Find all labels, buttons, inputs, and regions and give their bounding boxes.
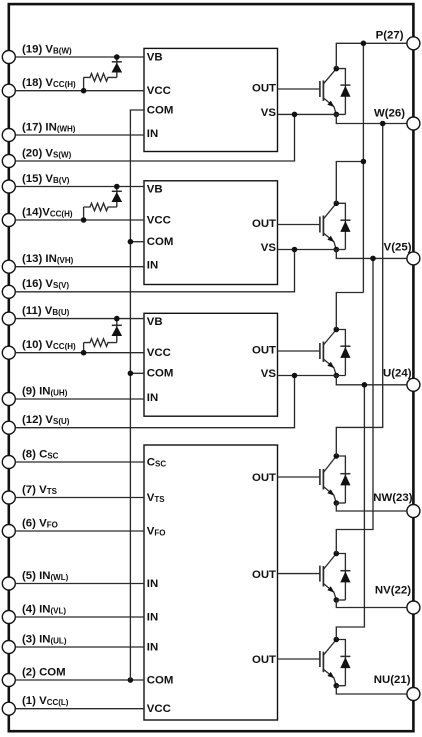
junction: D2 anode on VB wire	[114, 184, 120, 190]
junction: D3 anode on VB wire	[114, 316, 120, 322]
label pin (13)	[22, 253, 74, 265]
label pin (3)	[22, 633, 67, 645]
wire pin 14 to driver input	[15, 219, 144, 221]
wire V(25) rail	[336, 250, 407, 554]
IGBT Q4 (NW low side)	[320, 456, 336, 503]
pin V(25)	[407, 252, 420, 265]
junction: P rail top	[361, 41, 367, 47]
label pin (18)	[22, 77, 76, 89]
junction: D1 anode on VB wire	[114, 54, 120, 60]
wire pin 8 to driver input	[15, 461, 144, 463]
pin (7) VTS	[2, 491, 15, 504]
wire pin 3 to driver input	[15, 646, 144, 648]
svg-text:(15) VB(V): (15) VB(V)	[22, 173, 70, 185]
svg-text:OUT: OUT	[252, 345, 276, 357]
wire OUT to Q6 gate	[278, 658, 320, 660]
wire U2 VS to Q2 emitter	[278, 249, 346, 251]
wire pin 19 to driver input	[15, 56, 144, 58]
pin U(24)	[407, 378, 420, 391]
svg-text:VCC: VCC	[147, 703, 171, 715]
wire pin 6 to driver input	[15, 530, 144, 532]
svg-text:(1) VCC(L): (1) VCC(L)	[22, 695, 69, 707]
pin (5) IN(WL)	[2, 577, 15, 590]
label pin NU(21)	[374, 674, 411, 686]
freewheel diode D6F (NU low side)	[336, 640, 350, 686]
pin (11) VB(U)	[2, 312, 15, 325]
svg-text:VCC: VCC	[147, 85, 171, 97]
junction: VS return at x=294.5	[292, 112, 298, 118]
label pin P(27)	[376, 30, 404, 42]
svg-text:VS: VS	[261, 368, 277, 380]
svg-text:VB: VB	[147, 184, 163, 196]
svg-text:(2) COM: (2) COM	[22, 666, 66, 678]
wire NU(21) from Q6 emitter	[336, 686, 407, 694]
svg-text:IN: IN	[147, 578, 158, 590]
pin (18) VCC(H)	[2, 84, 15, 97]
svg-text:(16) VS(V): (16) VS(V)	[22, 278, 69, 290]
label pin (12)	[22, 414, 70, 426]
IGBT Q5 (NV low side)	[320, 554, 336, 601]
svg-text:(12) VS(U): (12) VS(U)	[22, 414, 70, 426]
pin W(26)	[407, 117, 420, 130]
svg-text:VCC: VCC	[147, 347, 171, 359]
wire pin 18 to driver input	[15, 90, 144, 92]
bootstrap diode D2	[112, 187, 123, 208]
label pin NW(23)	[373, 492, 412, 504]
node Q5 collector	[334, 551, 340, 557]
svg-text:OUT: OUT	[252, 569, 276, 581]
pin (9) IN(UH)	[2, 393, 15, 406]
wire Q6 emitter to diode anode	[336, 685, 345, 687]
svg-text:V(25): V(25)	[384, 242, 412, 254]
svg-text:(17) IN(WH): (17) IN(WH)	[22, 121, 76, 133]
node Q3 emitter	[334, 373, 340, 379]
wire pin 4 to driver input	[15, 616, 144, 618]
bootstrap resistor R2	[84, 203, 117, 220]
freewheel diode D2F (V phase high side)	[336, 203, 350, 249]
label pin (11)	[22, 305, 70, 317]
junction: P rail to Q2 collector	[361, 159, 367, 165]
gate driver U1 (W high side)	[144, 48, 278, 151]
svg-text:VS: VS	[261, 242, 277, 254]
bootstrap resistor R1	[84, 74, 117, 91]
svg-text:VS: VS	[261, 107, 277, 119]
wire OUT to Q5 gate	[278, 573, 320, 575]
svg-text:IN: IN	[147, 611, 158, 623]
pin NW(23)	[407, 505, 420, 518]
label pin (1)	[22, 695, 69, 707]
svg-text:COM: COM	[147, 236, 174, 248]
IGBT Q3 (U phase high side)	[320, 330, 336, 376]
wire U(24) rail	[336, 376, 407, 640]
pin (12) VS(U)	[2, 421, 15, 434]
pin (14) VCC(H)	[2, 214, 15, 227]
pin P(27)	[407, 37, 420, 50]
wire Q5 emitter to diode anode	[336, 599, 345, 601]
label pin (16)	[22, 278, 69, 290]
label pin (10)	[22, 339, 76, 351]
junction: V rail	[370, 256, 376, 262]
wire U3 VS to Q3 emitter	[278, 375, 346, 377]
U1 pin labels VB VCC COM IN OUT VS	[147, 51, 277, 140]
junction: R1 to VCC wire	[81, 88, 87, 94]
svg-text:W(26): W(26)	[374, 108, 405, 120]
wire pin 16 VS return	[15, 250, 294, 292]
svg-text:(20) VS(W): (20) VS(W)	[22, 147, 72, 159]
wire pin 17 to driver input	[15, 134, 144, 136]
wire pin 1 to driver input	[15, 708, 144, 710]
wire pin 10 to driver input	[15, 352, 144, 354]
label pin (20)	[22, 147, 72, 159]
junction: COM bus at U3	[128, 371, 134, 377]
label pin (17)	[22, 121, 76, 133]
pin (1) VCC(L)	[2, 702, 15, 715]
U2 pin labels VB VCC COM IN OUT VS	[147, 184, 277, 272]
svg-text:(9) IN(UH): (9) IN(UH)	[22, 385, 68, 397]
svg-text:IN: IN	[147, 128, 158, 140]
bootstrap diode D3	[112, 319, 123, 343]
wire OUT to Q1 gate	[278, 88, 320, 90]
wire OUT to Q4 gate	[278, 476, 320, 478]
node Q3 collector	[334, 327, 340, 333]
wire NW(23) from Q4 emitter	[336, 503, 407, 511]
freewheel diode D4F (NW low side)	[336, 456, 350, 503]
junction: COM bus at U2	[128, 239, 134, 245]
svg-text:P(27): P(27)	[376, 30, 404, 42]
junction: U rail	[362, 382, 368, 388]
label pin W(26)	[374, 108, 405, 120]
node Q4 emitter	[334, 500, 340, 506]
node Q5 emitter	[334, 597, 340, 603]
IGBT Q1 (W phase high side)	[320, 69, 336, 115]
label pin (4)	[22, 603, 66, 615]
svg-text:(5) IN(WL): (5) IN(WL)	[22, 570, 69, 582]
label pin (6)	[22, 517, 58, 529]
node Q6 collector	[334, 637, 340, 643]
pin (3) IN(UL)	[2, 641, 15, 654]
label pin U(24)	[383, 368, 412, 380]
node Q2 collector	[334, 201, 340, 207]
svg-text:(3) IN(UL): (3) IN(UL)	[22, 633, 67, 645]
svg-text:CSC: CSC	[147, 456, 167, 468]
node Q4 collector	[334, 453, 340, 459]
bootstrap diode D1	[112, 57, 123, 77]
node Q1 collector	[334, 66, 340, 72]
junction: R3 to VCC wire	[81, 350, 87, 356]
wire pin 20 VS return	[15, 114, 294, 161]
label pin (7)	[22, 484, 58, 496]
junction: VS return at x=294.5	[292, 247, 298, 253]
U3 pin labels VB VCC COM IN OUT VS	[147, 316, 277, 404]
svg-text:(7) VTS: (7) VTS	[22, 484, 58, 496]
svg-text:IN: IN	[147, 641, 158, 653]
svg-text:OUT: OUT	[252, 83, 276, 95]
wire pin 15 to driver input	[15, 186, 144, 188]
svg-text:COM: COM	[147, 104, 174, 116]
pin (17) IN(WH)	[2, 129, 15, 142]
freewheel diode D5F (NV low side)	[336, 554, 350, 601]
junction: R2 to VCC wire	[81, 217, 87, 223]
svg-text:VB: VB	[147, 316, 163, 328]
wire pin 11 to driver input	[15, 318, 144, 320]
bootstrap resistor R3	[84, 339, 117, 353]
wire pin 7 to driver input	[15, 497, 144, 499]
svg-text:(14)VCC(H): (14)VCC(H)	[22, 206, 73, 218]
wire OUT to Q3 gate	[278, 350, 320, 352]
junction: W rail	[380, 121, 386, 127]
wire Q4 emitter to diode anode	[336, 502, 345, 504]
wire pin 13 to driver input	[15, 266, 144, 268]
svg-text:IN: IN	[147, 392, 158, 404]
pin (2) COM	[2, 674, 15, 687]
svg-text:VTS: VTS	[147, 492, 165, 504]
pin (19) VB(W)	[2, 51, 15, 64]
svg-text:VB: VB	[147, 51, 163, 63]
svg-text:(8) CSC: (8) CSC	[22, 448, 59, 460]
svg-text:(19) VB(W): (19) VB(W)	[22, 43, 72, 55]
svg-text:IN: IN	[147, 260, 158, 272]
pin (13) IN(VH)	[2, 260, 15, 273]
wire U1 VS to Q1 emitter	[278, 113, 346, 115]
label pin V(25)	[384, 242, 412, 254]
label pin (8)	[22, 448, 59, 460]
label pin NV(22)	[375, 585, 411, 597]
wire pin 5 to driver input	[15, 583, 144, 585]
wire NV(22) from Q5 emitter	[336, 600, 407, 608]
label pin (5)	[22, 570, 69, 582]
label pin (9)	[22, 385, 68, 397]
wire P(27) rail	[336, 43, 407, 329]
IGBT Q6 (NU low side)	[320, 640, 336, 686]
junction: VS return at x=294.5	[292, 373, 298, 379]
svg-text:(18) VCC(H): (18) VCC(H)	[22, 77, 76, 89]
pin (20) VS(W)	[2, 155, 15, 168]
U4 pin labels CSC VTS VFO IN IN IN COM VCC OUT OUT OUT	[147, 456, 276, 715]
node Q2 emitter	[334, 247, 340, 253]
pin (8) CSC	[2, 456, 15, 469]
label pin (19)	[22, 43, 72, 55]
svg-text:(6) VFO: (6) VFO	[22, 517, 58, 529]
svg-text:OUT: OUT	[252, 472, 276, 484]
junction: COM bus to pin (2) wire	[128, 677, 134, 683]
label pin (2)	[22, 666, 66, 678]
pin (10) VCC(H)	[2, 346, 15, 359]
pin (4) IN(VL)	[2, 611, 15, 624]
svg-text:VCC: VCC	[147, 214, 171, 226]
freewheel diode D3F (U phase high side)	[336, 330, 350, 376]
svg-text:U(24): U(24)	[383, 368, 412, 380]
svg-text:VFO: VFO	[147, 525, 166, 537]
freewheel diode D1F (W phase high side)	[336, 69, 350, 115]
IGBT Q2 (V phase high side)	[320, 203, 336, 249]
svg-text:OUT: OUT	[252, 218, 276, 230]
pin (15) VB(V)	[2, 180, 15, 193]
svg-text:(4) IN(VL): (4) IN(VL)	[22, 603, 66, 615]
label pin (14)	[22, 206, 73, 218]
pin (16) VS(V)	[2, 285, 15, 298]
svg-text:(11) VB(U): (11) VB(U)	[22, 305, 70, 317]
wire W(26) rail	[336, 114, 407, 456]
wire pin 9 to driver input	[15, 398, 144, 400]
node Q1 emitter	[334, 112, 340, 118]
svg-text:COM: COM	[147, 368, 174, 380]
svg-text:NV(22): NV(22)	[375, 585, 411, 597]
node Q6 emitter	[334, 683, 340, 689]
svg-text:OUT: OUT	[252, 654, 276, 666]
low-side driver U4	[144, 445, 278, 720]
pin (6) VFO	[2, 525, 15, 538]
label pin (15)	[22, 173, 70, 185]
wire pin 2 to driver input	[15, 679, 144, 681]
svg-text:(10) VCC(H): (10) VCC(H)	[22, 339, 76, 351]
pin NU(21)	[407, 688, 420, 701]
COM bus wire	[130, 110, 144, 680]
gate driver U2 (V high side)	[144, 181, 278, 285]
wire OUT to Q2 gate	[278, 224, 320, 226]
svg-text:COM: COM	[147, 674, 174, 686]
pin NV(22)	[407, 601, 420, 614]
svg-text:(13) IN(VH): (13) IN(VH)	[22, 253, 74, 265]
svg-text:NW(23): NW(23)	[373, 492, 412, 504]
gate driver U3 (U high side)	[144, 313, 278, 416]
svg-text:NU(21): NU(21)	[374, 674, 411, 686]
wire pin 12 VS return	[15, 376, 294, 428]
